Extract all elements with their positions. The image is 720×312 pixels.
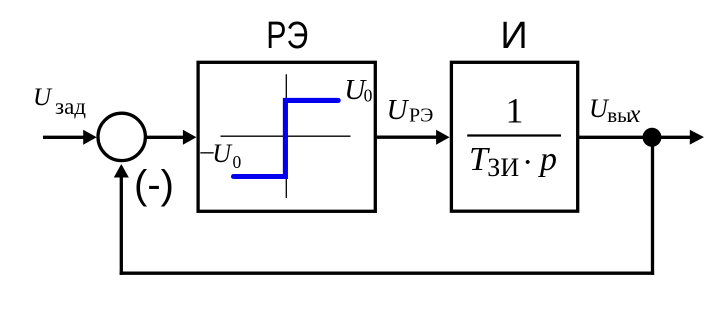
relay characteristic curve (234, 100, 339, 176)
svg-text:РЭ: РЭ (409, 105, 433, 127)
label -U_0 (200, 136, 242, 172)
wire И output to node (579, 136, 652, 139)
svg-text:·: · (522, 144, 533, 181)
svg-text:U: U (33, 84, 53, 111)
transfer function denominator T_ЗИ p (469, 141, 557, 182)
svg-text:ЗИ: ЗИ (487, 153, 519, 182)
transfer function fraction bar (467, 134, 561, 136)
block РЭ box (198, 62, 375, 211)
svg-text:0: 0 (364, 86, 373, 106)
wire output arrow (652, 130, 704, 145)
svg-text:(-): (-) (134, 163, 174, 207)
feedback wire from node down (651, 137, 654, 275)
svg-text:1: 1 (506, 90, 524, 130)
feedback wire up to summing junction with arrow (114, 164, 129, 275)
svg-text:p: p (538, 141, 557, 178)
svg-text:U: U (387, 94, 410, 126)
wire РЭ to И (377, 130, 450, 145)
feedback wire bottom horizontal (120, 272, 654, 275)
wire input arrow into summing junction (43, 130, 97, 145)
svg-text:U: U (212, 139, 233, 168)
node output junction dot (643, 128, 662, 147)
svg-text:зад: зад (55, 94, 86, 119)
svg-text:вы: вы (607, 103, 631, 127)
label U_зад (33, 84, 86, 119)
svg-text:x: x (628, 101, 640, 128)
relay characteristic horizontal axis (221, 135, 351, 137)
wire summing junction to РЭ block (147, 130, 197, 145)
label U_вых (589, 94, 640, 128)
block И box (451, 62, 577, 211)
relay characteristic vertical axis (285, 74, 287, 198)
label U_0 (344, 74, 372, 106)
svg-text:0: 0 (233, 152, 242, 172)
svg-text:РЭ: РЭ (266, 15, 308, 57)
summing junction (98, 113, 145, 160)
label U_РЭ (387, 94, 434, 127)
svg-text:И: И (500, 15, 527, 57)
